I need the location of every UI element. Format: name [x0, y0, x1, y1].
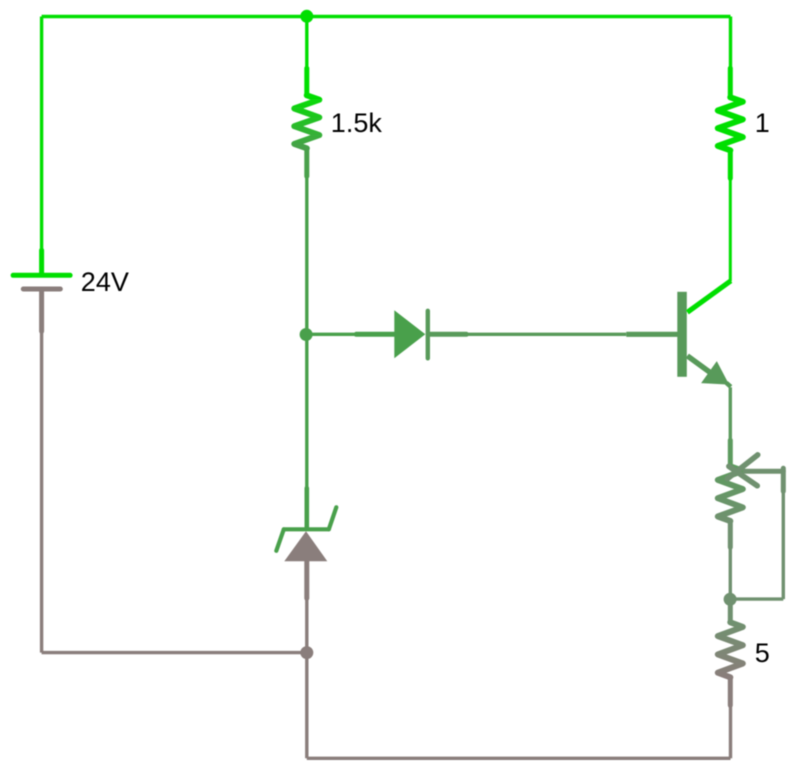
svg-text:24V: 24V [81, 267, 129, 297]
resistor R3 5 ohm [718, 599, 743, 705]
wire bottom horizontal [307, 757, 731, 760]
transistor Q1 base lead [626, 332, 679, 337]
node junction dot top (V+ rail) [300, 10, 313, 23]
wire wiper loop right vertical [782, 471, 785, 599]
wire right vertical down to R2 [729, 17, 732, 71]
wire collector up to R2 [729, 178, 732, 281]
wire wiper loop lead [781, 468, 786, 491]
wire battery negative down [40, 331, 43, 652]
wire zener to ground node [305, 598, 308, 652]
wire bottom right vertical up to R3 [729, 706, 732, 758]
potentiometer VR1 [718, 440, 743, 547]
resistor R2 1 ohm [718, 68, 743, 178]
wire emitter down to pot [729, 387, 732, 442]
wire wiper loop bottom horizontal [730, 597, 783, 600]
diode D1 [356, 310, 466, 358]
wire top rail down to R1 [305, 16, 308, 70]
wire R1 bottom to node A [305, 176, 308, 334]
svg-text:1.5k: 1.5k [331, 108, 383, 138]
wire node A down to zener [305, 334, 308, 490]
wire ground node down [305, 653, 308, 759]
node A junction dot [300, 328, 313, 341]
node P junction dot [724, 593, 737, 606]
node ground junction dot [300, 646, 313, 659]
svg-text:5: 5 [755, 638, 770, 668]
zener diode D2 [276, 488, 336, 598]
svg-text:1: 1 [755, 108, 770, 138]
potentiometer wiper arrow [727, 455, 783, 486]
wire battery negative to ground node [42, 651, 307, 654]
wire top horizontal (V+ rail) [42, 15, 731, 18]
resistor R1 1.5k [294, 68, 319, 176]
wire top-left vertical (V+ from battery) [40, 17, 43, 253]
wire diode to base [466, 333, 626, 336]
battery V1 [13, 250, 70, 331]
transistor Q1 [677, 281, 731, 387]
wire pot bottom to node P [729, 547, 732, 599]
wire node A to diode [306, 333, 358, 336]
